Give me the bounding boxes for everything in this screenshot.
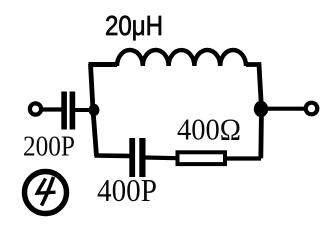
wire (top left horizontal) [89, 62, 118, 67]
wire (bottom left horizontal) [95, 153, 131, 158]
wire (top right horizontal + right vertical) [246, 65, 262, 159]
wire [41, 107, 62, 111]
right terminal [306, 103, 318, 115]
capacitor C2 400P [129, 138, 145, 177]
svg-text:20μH: 20μH [105, 10, 163, 41]
svg-text:400Ω: 400Ω [177, 113, 241, 147]
wire (bottom right horizontal) [227, 156, 261, 160]
wire [75, 108, 93, 112]
node A (left junction) [89, 104, 100, 116]
svg-text:200P: 200P [23, 132, 75, 163]
resistor R1 400ohm [178, 152, 226, 164]
wire [145, 155, 177, 160]
left terminal [30, 103, 41, 114]
figure number circle 4 [25, 172, 67, 214]
inductor L1 20uH [117, 50, 246, 66]
wire (left vertical riser) [91, 64, 97, 156]
wire (to right terminal) [261, 107, 304, 111]
capacitor C1 200P [61, 92, 75, 130]
svg-text:400P: 400P [97, 172, 157, 208]
node B (right junction) [254, 101, 268, 117]
